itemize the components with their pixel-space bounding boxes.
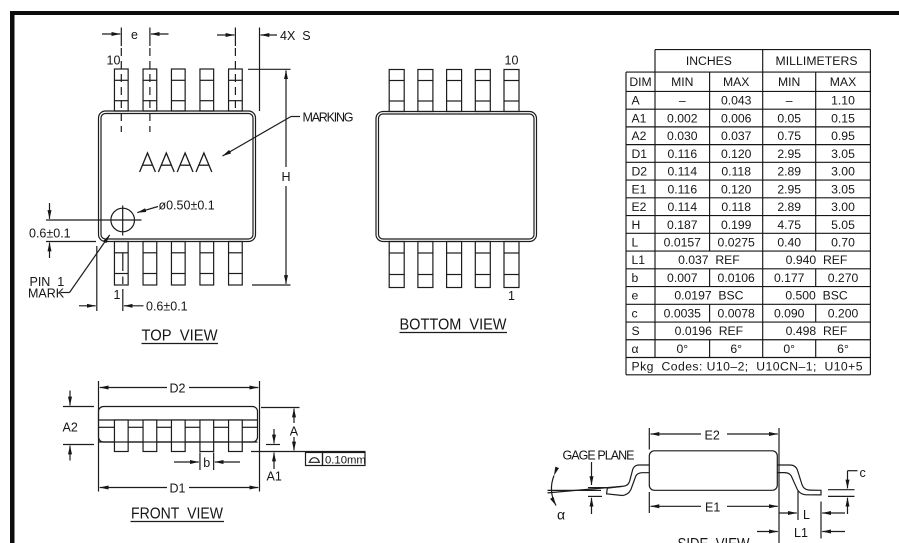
dimension A extension line (261, 407, 300, 409)
front view cap bottom line (99, 419, 258, 421)
svg-text:0.030: 0.030 (667, 129, 698, 143)
svg-text:A2: A2 (63, 421, 78, 435)
svg-text:0.187: 0.187 (667, 218, 698, 232)
svg-text:H: H (282, 170, 291, 184)
svg-text:4X S: 4X S (280, 29, 311, 43)
seating plane line (251, 451, 366, 453)
dimension c extension lines (828, 490, 855, 497)
svg-text:H: H (632, 218, 641, 232)
dimension 0.6 left arrows (49, 203, 51, 258)
svg-text:Pkg Codes: U10–2; U10CN–1;: Pkg Codes: U10–2; U10CN–1; U10+5 (632, 360, 863, 374)
pin 10 (top view, top row) (114, 69, 128, 111)
svg-text:–: – (679, 94, 686, 108)
svg-text:3.05: 3.05 (831, 147, 855, 161)
table row 1 (632, 94, 856, 108)
svg-text:0.95: 0.95 (831, 129, 855, 143)
svg-text:0.500 BSC: 0.500 BSC (785, 289, 848, 303)
svg-text:0.002: 0.002 (667, 111, 698, 125)
svg-text:0°: 0° (783, 342, 795, 356)
table row 13 (632, 306, 859, 320)
pin 4 (bottom view, bottom row) (418, 242, 433, 288)
svg-text:0.70: 0.70 (831, 236, 855, 250)
dimension A2 extension lines (63, 407, 94, 445)
front view lead 4 (200, 420, 214, 452)
pin 6 (top view, top row) (229, 69, 243, 111)
svg-text:E1: E1 (705, 500, 720, 514)
svg-text:GAGE PLANE: GAGE PLANE (563, 449, 635, 463)
svg-text:0.177: 0.177 (774, 271, 805, 285)
front view lead 2 (143, 420, 157, 452)
flatness symbol (309, 458, 321, 463)
dimension table grid (626, 50, 870, 375)
dimension A arrows (293, 409, 295, 451)
svg-text:ø0.50±0.1: ø0.50±0.1 (159, 199, 215, 213)
front view body bottom edge across leads (99, 441, 258, 443)
pin 9 (top view, top row) (143, 69, 157, 111)
svg-text:0.0078: 0.0078 (718, 306, 755, 320)
pin 8 (bottom view, top row) (447, 70, 462, 112)
svg-text:A1: A1 (632, 111, 647, 125)
pin 9 (bottom view, top row) (475, 70, 490, 112)
dimension e arrows (102, 33, 169, 35)
svg-text:0.270: 0.270 (828, 271, 859, 285)
svg-text:1: 1 (508, 289, 515, 303)
dimension E1 extension line left (648, 492, 650, 513)
table row 8 (632, 218, 856, 232)
svg-text:0.75: 0.75 (777, 129, 801, 143)
svg-text:0.0157: 0.0157 (664, 236, 701, 250)
svg-text:E2: E2 (632, 200, 647, 214)
svg-text:e: e (632, 289, 639, 303)
table row 10 (632, 253, 848, 267)
svg-text:b: b (203, 456, 210, 470)
dimension D1 arrows (100, 487, 259, 489)
IC package body (bottom view) inner outline (379, 114, 535, 239)
svg-text:0.0275: 0.0275 (718, 236, 755, 250)
dimension 0.6 bottom extension lines (97, 246, 123, 311)
svg-text:0.6±0.1: 0.6±0.1 (146, 300, 188, 314)
svg-text:S: S (632, 324, 640, 338)
dimension D2 extension lines (99, 381, 260, 492)
table row 15 (632, 342, 849, 356)
svg-text:MIN: MIN (778, 75, 800, 89)
AAAA marking text on package (140, 153, 212, 172)
svg-text:0.116: 0.116 (668, 182, 698, 196)
svg-text:2.95: 2.95 (777, 182, 801, 196)
svg-text:2.95: 2.95 (777, 147, 801, 161)
S extension line (259, 28, 261, 112)
dimension A1 arrows (273, 429, 275, 469)
dimension H extension lines (248, 69, 291, 285)
svg-text:0.120: 0.120 (721, 147, 752, 161)
svg-text:A1: A1 (267, 470, 282, 484)
alpha angle reference lines (548, 486, 622, 493)
svg-text:0.090: 0.090 (774, 306, 805, 320)
svg-text:6°: 6° (730, 342, 742, 356)
svg-text:0.006: 0.006 (721, 111, 752, 125)
dimension 0.6 left extension line (46, 241, 96, 243)
dimension A2 arrows (69, 391, 71, 461)
svg-text:L: L (803, 508, 810, 522)
svg-text:FRONT VIEW: FRONT VIEW (131, 506, 224, 523)
svg-text:b: b (632, 271, 639, 285)
table min/max column dividers (710, 72, 816, 357)
svg-text:MARK: MARK (28, 287, 65, 301)
dimension H arrows (285, 70, 287, 284)
svg-text:0.0106: 0.0106 (718, 271, 755, 285)
svg-text:L: L (632, 236, 639, 250)
svg-text:A: A (290, 424, 299, 438)
svg-text:L1: L1 (794, 526, 808, 540)
svg-text:BOTTOM VIEW: BOTTOM VIEW (400, 317, 508, 334)
svg-text:4.75: 4.75 (777, 218, 801, 232)
pin 6 centerline (dashed) (234, 28, 236, 114)
table row 11 (632, 271, 859, 285)
pin 7 (bottom view, top row) (418, 70, 433, 112)
svg-text:MAX: MAX (830, 75, 856, 89)
svg-text:0.043: 0.043 (721, 94, 752, 108)
svg-text:0.037 REF: 0.037 REF (678, 253, 740, 267)
pin 1 index dimple circle (111, 208, 135, 232)
dimension E2 arrows (651, 433, 778, 435)
pin 3 (top view, bottom row) (171, 242, 185, 286)
svg-text:MILLIMETERS: MILLIMETERS (776, 54, 858, 68)
svg-text:–: – (786, 94, 793, 108)
dimension b arrows (174, 461, 240, 463)
svg-text:A: A (632, 94, 641, 108)
svg-text:10: 10 (107, 54, 121, 68)
dimension b extension bars (200, 453, 214, 471)
pin 10 (bottom view, top row) (504, 70, 519, 112)
side view package body outline (649, 451, 777, 491)
table row 14 (632, 324, 848, 338)
svg-text:0.118: 0.118 (721, 200, 751, 214)
svg-text:0.116: 0.116 (668, 147, 698, 161)
table row 7 (632, 200, 856, 214)
pin 4 (top view, bottom row) (200, 242, 214, 286)
svg-text:MARKING: MARKING (303, 110, 354, 124)
svg-text:1: 1 (114, 288, 121, 302)
svg-text:INCHES: INCHES (686, 54, 732, 68)
pin 2 (top view, bottom row) (143, 242, 157, 286)
svg-text:α: α (632, 342, 639, 356)
table row 6 (632, 182, 856, 196)
svg-text:α: α (557, 507, 565, 523)
svg-text:0.940 REF: 0.940 REF (786, 253, 848, 267)
dimension L extension lines (798, 491, 821, 539)
front view lead 1 (114, 420, 128, 452)
table header DIM MIN MAX MIN MAX (629, 75, 856, 89)
side view right gull-wing lead (777, 465, 821, 495)
dimple crosshair (46, 206, 142, 236)
svg-text:6°: 6° (837, 342, 849, 356)
dimension L arrows (780, 512, 846, 514)
side view left gull-wing lead (607, 465, 650, 496)
svg-text:0.10mm: 0.10mm (325, 454, 366, 466)
svg-text:SIDE VIEW: SIDE VIEW (678, 536, 751, 543)
front view back lead web lines (99, 426, 257, 428)
dimension L1 arrows (757, 531, 845, 533)
svg-text:3.00: 3.00 (831, 200, 855, 214)
table row 3 (632, 129, 856, 143)
dimple diameter leader (137, 207, 158, 213)
svg-text:D1: D1 (632, 147, 648, 161)
gage plane arrows (591, 462, 593, 514)
svg-text:D2: D2 (170, 381, 186, 395)
pin 1 (bottom view, bottom row) (504, 242, 519, 288)
pin 8 (top view, top row) (171, 69, 185, 111)
svg-text:3.05: 3.05 (831, 182, 855, 196)
svg-text:c: c (632, 306, 638, 320)
svg-text:5.05: 5.05 (831, 218, 855, 232)
svg-text:0.199: 0.199 (721, 218, 752, 232)
svg-text:0.037: 0.037 (721, 129, 752, 143)
svg-text:0.0197 BSC: 0.0197 BSC (674, 289, 743, 303)
svg-text:0.120: 0.120 (721, 182, 752, 196)
gage plane lines (588, 488, 607, 497)
svg-text:0.200: 0.200 (828, 306, 859, 320)
svg-text:0°: 0° (676, 342, 688, 356)
IC package body (top view) outer outline (99, 111, 256, 242)
svg-text:MIN: MIN (671, 75, 693, 89)
front view lead 3 (171, 420, 185, 452)
svg-text:0.0035: 0.0035 (664, 306, 701, 320)
svg-text:3.00: 3.00 (831, 165, 855, 179)
svg-text:MAX: MAX (723, 75, 749, 89)
svg-text:2.89: 2.89 (777, 165, 801, 179)
svg-text:10: 10 (505, 54, 519, 68)
svg-text:0.05: 0.05 (777, 111, 801, 125)
svg-text:D1: D1 (170, 481, 186, 495)
table row 5 (632, 165, 856, 179)
table row 12 (632, 289, 848, 303)
dimension D2 arrows (100, 387, 259, 389)
svg-text:E2: E2 (705, 428, 720, 442)
svg-text:0.498 REF: 0.498 REF (786, 324, 848, 338)
svg-text:0.007: 0.007 (667, 271, 698, 285)
svg-text:c: c (860, 466, 866, 480)
IC package body (top view) inner outline (101, 114, 253, 240)
svg-text:L1: L1 (632, 253, 646, 267)
dimension c leader and arrows (848, 471, 858, 514)
PIN 1 MARK leader line (61, 235, 110, 293)
IC package body (bottom view) outer outline (376, 112, 537, 242)
border frame left (10, 11, 15, 543)
pin 9 centerline (dashed) (149, 28, 151, 133)
pin 2 (bottom view, bottom row) (475, 242, 490, 288)
flatness callout box (306, 453, 366, 466)
pin 10 centerline (dashed) (120, 28, 122, 133)
pin 5 (bottom view, bottom row) (389, 242, 404, 288)
svg-text:0.118: 0.118 (721, 165, 751, 179)
pin 1 (top view, bottom row) (114, 242, 128, 286)
svg-text:e: e (131, 28, 138, 42)
front view body outline (99, 407, 258, 443)
svg-text:0.6±0.1: 0.6±0.1 (29, 227, 71, 241)
pin 7 (top view, top row) (200, 69, 214, 111)
svg-text:0.114: 0.114 (668, 165, 698, 179)
dimension E2 extension lines (649, 428, 779, 543)
border frame top (10, 11, 899, 15)
svg-text:DIM: DIM (629, 75, 651, 89)
svg-text:0.114: 0.114 (668, 200, 698, 214)
MARKING leader line (223, 117, 301, 157)
dimension A1 extension line (266, 444, 280, 446)
svg-text:0.40: 0.40 (777, 236, 801, 250)
dimension E1 arrows (651, 505, 778, 507)
svg-text:D2: D2 (632, 165, 648, 179)
table row 2 (632, 111, 856, 125)
pin 5 (top view, bottom row) (229, 242, 243, 286)
front view lead 5 (229, 420, 243, 452)
svg-text:A2: A2 (632, 129, 647, 143)
alpha angle arc (551, 476, 556, 506)
pin 6 (bottom view, top row) (389, 70, 404, 112)
dimension 4X S arrows (217, 34, 277, 36)
svg-text:TOP VIEW: TOP VIEW (142, 328, 219, 345)
pin 3 (bottom view, bottom row) (447, 242, 462, 288)
dimension 0.6 bottom arrows (79, 305, 144, 307)
svg-text:E1: E1 (632, 182, 647, 196)
svg-text:1.10: 1.10 (831, 94, 855, 108)
table row 9 (632, 236, 856, 250)
svg-text:2.89: 2.89 (777, 200, 801, 214)
table row 4 (632, 147, 856, 161)
svg-text:0.15: 0.15 (831, 111, 855, 125)
svg-text:0.0196 REF: 0.0196 REF (675, 324, 743, 338)
